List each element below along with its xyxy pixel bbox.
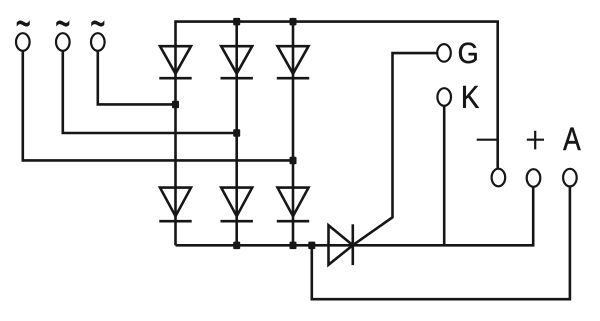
wire gate from G terminal to thyristor cathode [353,53,444,245]
node phase1 tap [290,157,297,165]
wire phase 1 terminal to column 3 [23,42,293,160]
node bottom rail return [308,242,315,250]
terminal circle phase 1 [16,33,30,51]
thyristor V [329,224,353,265]
wire bottom rail to plus terminal [176,178,534,245]
label A [563,128,580,150]
node top rail col3 [290,18,297,26]
wire A terminal to anode return [312,178,570,300]
node phase3 tap [172,101,179,109]
label minus sign [477,139,499,141]
wire phase 3 terminal to column 1 [98,42,176,104]
label tilde 3 [92,21,104,26]
terminal circle phase 3 [91,33,105,51]
junction dots [172,18,315,249]
wire K terminal to cathode rail [443,97,446,245]
wire top rail with right drop to minus terminal [176,22,498,246]
diode D3 [277,46,309,78]
diode D1 [159,46,191,78]
label tilde 1 [17,21,29,26]
diode D2 [221,46,253,78]
node phase2 tap [233,129,240,137]
node bottom rail col3 [290,242,297,250]
diode D5 [221,188,253,222]
label plus sign [527,131,544,150]
diode D6 [277,188,309,222]
label tilde 2 [57,21,69,26]
terminal circle G [437,44,451,62]
label K [463,86,479,108]
wire bridge column 3 [292,22,295,246]
terminal circle phase 2 [56,33,70,51]
node top rail col2 [233,18,240,26]
terminal circle K [437,88,451,106]
node bottom rail col2 [233,242,240,250]
terminal circle plus [527,169,541,187]
terminal circle minus [492,169,506,187]
terminal circle A [563,169,577,187]
diode D4 [159,188,191,222]
wire phase 2 terminal to column 2 [63,42,237,133]
wire bridge column 2 [235,22,238,246]
label G [459,43,477,64]
